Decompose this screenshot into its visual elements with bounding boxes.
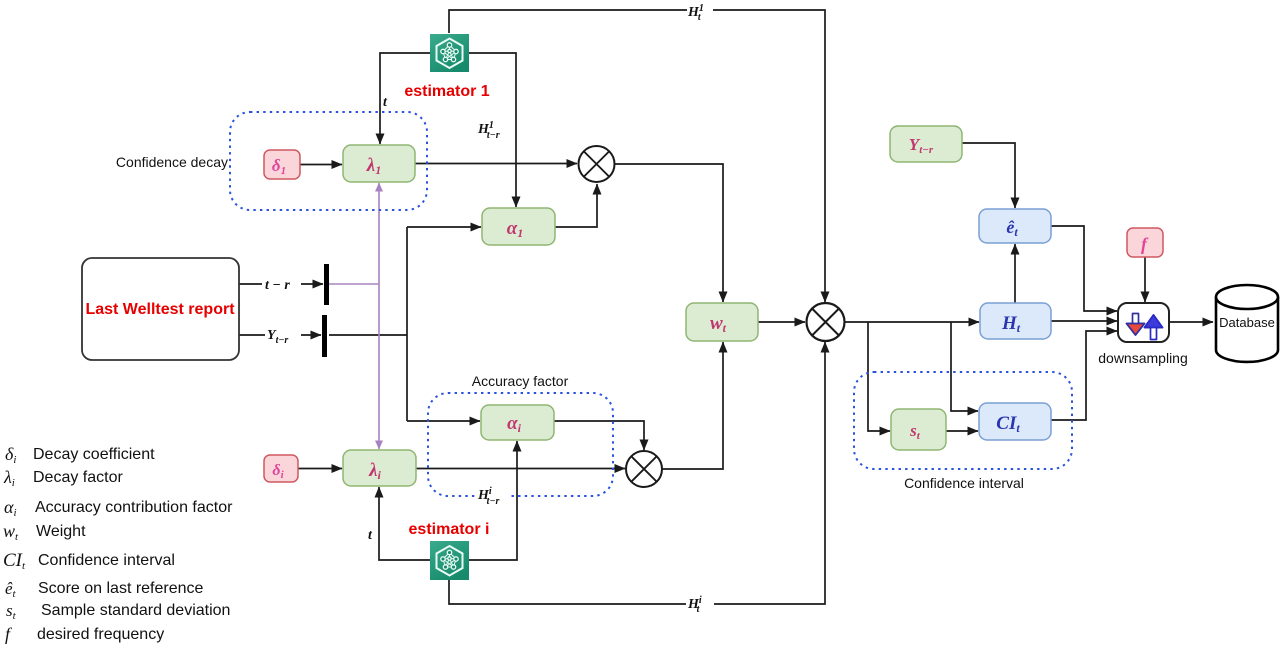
svg-text:Sample standard deviation: Sample standard deviation <box>41 602 230 619</box>
svg-text:estimator 1: estimator 1 <box>404 83 489 100</box>
wire alpha-i to multiplier 2 top <box>554 421 644 450</box>
wire Yt-r box to e-hat top <box>962 143 1015 208</box>
wire f to downsampling top <box>1144 257 1146 302</box>
wire estimator-i left to lambda-i bottom <box>379 487 430 560</box>
svg-text:Score on last reference: Score on last reference <box>38 580 204 597</box>
block e-hat <box>979 209 1051 243</box>
wire big multiplier to Ht <box>845 321 980 323</box>
wire estimator-i right to alpha-i bottom (Hit-r) <box>469 441 517 560</box>
label t bottom <box>366 526 375 543</box>
block Last Welltest report <box>82 258 239 360</box>
multiplier 2 (circle with X) <box>626 451 662 487</box>
wire wt to big multiplier <box>758 321 805 323</box>
block st <box>891 409 946 450</box>
svg-text:Confidence decay: Confidence decay <box>116 154 228 170</box>
block Yt-r <box>890 126 962 162</box>
dashed group Accuracy factor <box>428 393 613 496</box>
wire branch to CIt upper input <box>951 322 978 411</box>
wire lambda-i to multiplier 2 <box>416 468 625 470</box>
legend <box>3 444 233 644</box>
wire e-hat to downsampling <box>1051 226 1117 311</box>
wire CIt to downsampling <box>1051 331 1117 420</box>
wire Y branch vertical <box>329 227 407 421</box>
label Hit-r <box>477 486 510 508</box>
multiplier 1 (circle with X) <box>579 146 615 182</box>
wire Yt-r from report to bar <box>239 334 321 336</box>
database cylinder <box>1216 285 1278 362</box>
icon estimator 1 <box>430 34 469 72</box>
label Hti on bottom wire <box>686 593 714 615</box>
block f <box>1127 228 1163 257</box>
svg-text:t − r: t − r <box>265 278 290 293</box>
block alpha-i <box>481 405 554 440</box>
block alpha1 <box>482 208 555 245</box>
svg-text:Accuracy contribution factor: Accuracy contribution factor <box>35 499 233 516</box>
wire branch to st <box>868 322 890 431</box>
block downsampling <box>1118 303 1169 342</box>
label Ht1 on top wire <box>687 1 713 23</box>
svg-text:Decay factor: Decay factor <box>33 469 123 486</box>
wire Hti bottom loop from estimator i to big multiplier bottom <box>449 342 825 604</box>
block lambda1 <box>343 145 415 182</box>
label t-r on wire <box>262 274 301 293</box>
wire delta1 to lambda1 <box>300 164 342 166</box>
svg-text:Last Welltest report: Last Welltest report <box>85 301 235 318</box>
wire t from estimator 1 into lambda1 top <box>380 53 430 144</box>
block delta1 <box>264 150 300 179</box>
wire H1t-r from estimator 1 into alpha1 top <box>469 53 516 207</box>
multiplier big (circle with X) <box>807 303 845 341</box>
dashed group Confidence decay <box>230 112 427 210</box>
svg-text:downsampling: downsampling <box>1098 350 1188 366</box>
label t top <box>382 93 391 110</box>
block lambda-i <box>343 450 416 486</box>
wire delta-i to lambda-i <box>298 468 342 470</box>
wire t-r from report to bar <box>239 283 323 285</box>
icon estimator i <box>430 541 469 580</box>
wire Ht to e-hat bottom <box>1014 244 1016 303</box>
label Yt-r on wire <box>265 325 301 346</box>
wire multiplier1 to wt top <box>614 164 723 302</box>
bar delay Yt-r <box>322 315 327 357</box>
block CIt <box>979 403 1051 440</box>
wire Ht to downsampling <box>1051 320 1117 322</box>
svg-text:Weight: Weight <box>36 523 86 540</box>
svg-text:Confidence interval: Confidence interval <box>38 552 175 569</box>
wire lambda1 to multiplier 1 <box>415 163 577 165</box>
bar delay t-r <box>324 264 329 305</box>
wire alpha1 input from Y branch <box>407 226 481 228</box>
block wt <box>686 303 758 341</box>
svg-text:estimator i: estimator i <box>409 521 490 538</box>
svg-text:Database: Database <box>1219 315 1275 330</box>
dashed group Confidence interval <box>854 372 1072 469</box>
svg-text:Accuracy factor: Accuracy factor <box>472 373 569 389</box>
wire st to CIt <box>946 430 978 432</box>
wire alpha-i input <box>407 420 480 422</box>
wire multiplier2 to wt bottom <box>662 342 723 469</box>
wire Ht1 top loop from estimator 1 to big multiplier <box>449 10 825 302</box>
svg-text:Confidence interval: Confidence interval <box>904 475 1024 491</box>
svg-text:desired frequency: desired frequency <box>37 626 164 643</box>
wire downsampling to database <box>1169 321 1213 323</box>
icon downsampling arrows <box>1127 314 1163 340</box>
wire alpha1 to multiplier 1 bottom <box>555 184 597 227</box>
wire purple t-r distribution <box>329 183 379 449</box>
block Ht <box>980 303 1051 339</box>
svg-text:Decay coefficient: Decay coefficient <box>33 446 155 463</box>
block delta-i <box>264 455 298 482</box>
